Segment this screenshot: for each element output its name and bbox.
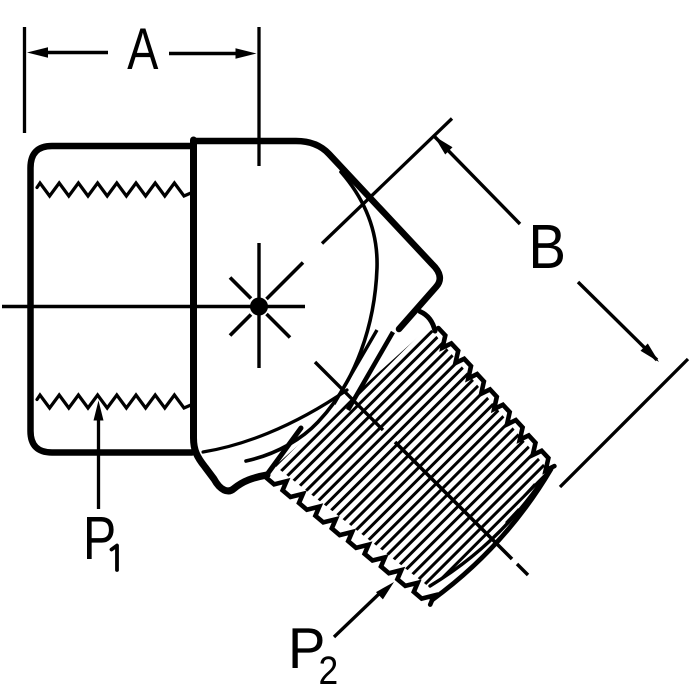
- body lower transition curve: [203, 390, 347, 452]
- P2 leader line: [334, 592, 381, 637]
- female port horizontal centerline: [2, 305, 305, 308]
- star vertical ray: [257, 243, 260, 368]
- first thread flank second stroke: [334, 330, 377, 404]
- male thread upper sawtooth silhouette: [438, 328, 554, 470]
- tip chamfer thread mark 1: [524, 484, 535, 496]
- elbow body top edge, 45-degree edge and male boss end face: [195, 141, 440, 329]
- dimension B lower arrowhead: [641, 344, 660, 363]
- male thread lower sawtooth silhouette: [266, 478, 434, 605]
- dimension A line right segment: [169, 52, 238, 55]
- star center dot: [250, 298, 268, 316]
- male axis centerline tip dash: [517, 564, 528, 575]
- star ray up-right: [267, 263, 304, 300]
- male axis centerline dash 2: [315, 362, 383, 430]
- male boss end face lower segment: [267, 428, 301, 475]
- label P1 subscript: [112, 546, 118, 571]
- male thread hatching: [242, 293, 588, 639]
- dimension A line left segment: [48, 51, 108, 54]
- female port face line and V notch: [194, 140, 268, 491]
- male axis centerline through threads: [395, 442, 512, 559]
- tip chamfer thread mark 2: [506, 509, 519, 523]
- male axis centerline dash 1: [267, 314, 291, 338]
- male thread tip chamfer line: [430, 479, 543, 586]
- dimension A left extension line: [23, 27, 26, 133]
- first thread flank heavy stroke: [348, 332, 393, 410]
- P2 arrowhead: [376, 582, 394, 599]
- dimension B upper extension line: [322, 119, 452, 244]
- dimension A right arrowhead: [236, 48, 257, 58]
- label P2 subscript: [320, 656, 336, 684]
- label B: [533, 225, 563, 268]
- star ray up-left: [230, 278, 251, 299]
- female thread zigzag upper: [37, 183, 192, 196]
- dimension B upper arrowhead: [434, 136, 453, 155]
- label P1: [87, 517, 114, 559]
- label P2: [293, 628, 323, 668]
- body bell transition curve: [246, 172, 377, 461]
- dimension B line lower segment: [578, 282, 657, 360]
- female thread zigzag lower: [37, 395, 192, 408]
- dimension A left arrowhead: [27, 47, 48, 57]
- star ray down-left: [230, 315, 251, 336]
- dimension B lower extension line: [560, 359, 688, 487]
- dimension B line upper segment: [434, 136, 520, 224]
- male thread tip end face: [432, 469, 551, 600]
- dimension A right extension line: [257, 27, 260, 166]
- first thread crest rise from end face: [420, 312, 435, 332]
- P1 arrowhead: [94, 401, 104, 421]
- female port body outline: [31, 146, 193, 453]
- label A: [127, 29, 158, 70]
- P1 leader line: [97, 420, 100, 509]
